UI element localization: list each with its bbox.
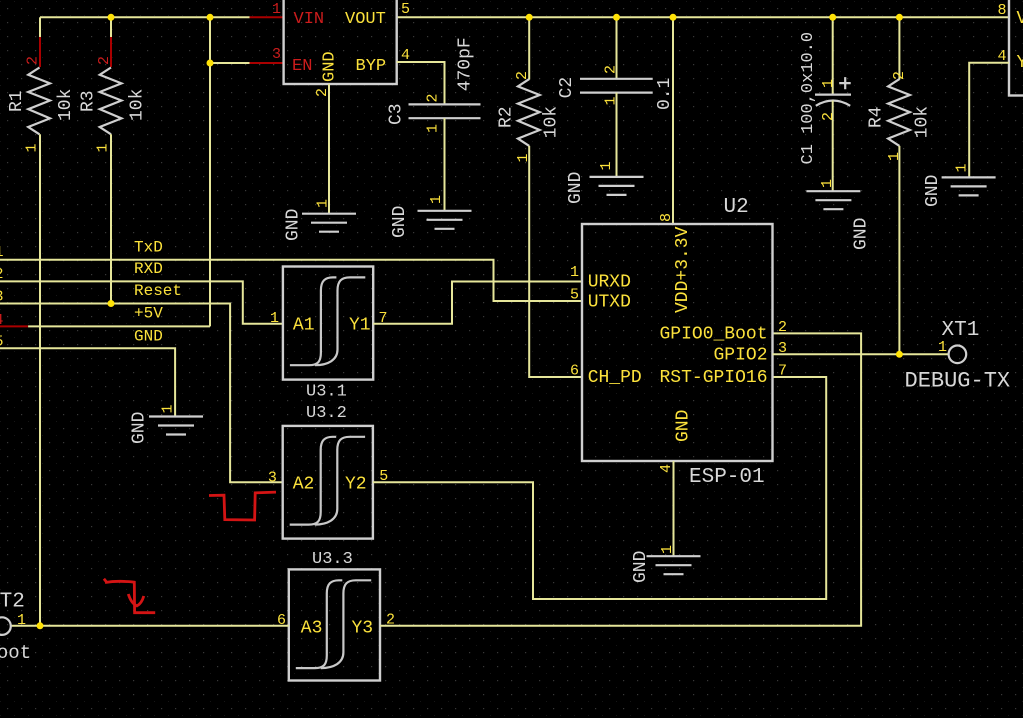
wire +5V riser VIN/EN column xyxy=(209,17,211,326)
svg-text:2: 2 xyxy=(778,319,787,336)
labels of U2 ESP-01 xyxy=(570,196,787,489)
svg-text:6: 6 xyxy=(277,612,286,629)
svg-text:1: 1 xyxy=(425,124,442,133)
labels of regulator U1 xyxy=(272,1,410,97)
svg-text:R3: R3 xyxy=(78,90,98,112)
IC U2 ESP-01 box xyxy=(582,224,773,461)
svg-text:1: 1 xyxy=(0,244,4,261)
svg-text:C2: C2 xyxy=(557,77,577,99)
resistor R3 xyxy=(100,68,122,135)
svg-text:C3: C3 xyxy=(387,103,407,125)
net labels left connector xyxy=(0,238,182,350)
svg-text:1: 1 xyxy=(428,195,445,204)
svg-text:U2: U2 xyxy=(724,196,749,219)
svg-text:2: 2 xyxy=(514,71,531,80)
resistor R4 xyxy=(888,79,910,146)
svg-text:10k: 10k xyxy=(128,89,148,121)
svg-text:U3.2: U3.2 xyxy=(306,404,347,423)
svg-text:7: 7 xyxy=(778,363,787,380)
junction node dots xyxy=(37,14,903,630)
svg-text:2: 2 xyxy=(24,56,41,65)
labels of R3 xyxy=(78,56,147,153)
svg-text:GND: GND xyxy=(134,327,163,345)
svg-text:Y3: Y3 xyxy=(352,619,374,639)
svg-text:GPIO2: GPIO2 xyxy=(714,345,768,365)
wire BYP to C3 xyxy=(397,62,445,104)
svg-text:2: 2 xyxy=(425,93,442,102)
svg-text:XT1: XT1 xyxy=(942,319,980,342)
gate U3.4 box partial at right edge xyxy=(1009,0,1023,96)
wire U2 VDD pin8 stub xyxy=(672,17,674,224)
svg-text:U3.3: U3.3 xyxy=(312,550,353,569)
pin R3 pin2 red xyxy=(110,37,112,67)
svg-text:boot: boot xyxy=(0,642,31,664)
svg-text:R1: R1 xyxy=(7,90,27,112)
svg-text:V: V xyxy=(1017,9,1023,29)
wire Y2 to RST-GPIO16 xyxy=(373,377,826,599)
labels of XT2 xyxy=(0,591,31,665)
svg-text:Y: Y xyxy=(1017,53,1023,73)
capacitor C2 xyxy=(580,79,653,93)
wire C2 bottom to ground xyxy=(616,93,618,177)
svg-text:2: 2 xyxy=(96,56,113,65)
wire Y3 to GPIO0_Boot xyxy=(380,333,861,625)
wire U3.4 pin4 to ground xyxy=(969,63,1009,178)
svg-text:BYP: BYP xyxy=(356,57,387,76)
svg-text:1: 1 xyxy=(938,339,947,356)
ground below C3 xyxy=(418,211,472,229)
svg-text:A3: A3 xyxy=(301,619,323,639)
svg-text:1: 1 xyxy=(659,545,676,554)
svg-text:GPIO0_Boot: GPIO0_Boot xyxy=(660,324,768,344)
gate U3.3 hysteresis curve xyxy=(296,580,371,668)
voltage regulator U1 box xyxy=(284,0,397,84)
labels of R2 xyxy=(497,71,562,163)
svg-text:2: 2 xyxy=(386,612,395,629)
svg-text:R4: R4 xyxy=(867,106,887,128)
wire GPIO2 to XT1 xyxy=(773,353,949,355)
svg-text:1: 1 xyxy=(954,163,971,172)
wire C3 bottom to ground xyxy=(444,118,446,211)
labels of C3 xyxy=(387,37,476,133)
svg-text:RST-GPIO16: RST-GPIO16 xyxy=(660,368,768,388)
wire R4 top stub xyxy=(898,17,900,79)
wire R1 top stub xyxy=(39,17,41,38)
wire U2 GND pin4 down xyxy=(673,461,675,556)
svg-text:10k: 10k xyxy=(913,106,933,138)
wire R3 bottom to Reset row xyxy=(110,134,112,303)
svg-text:2: 2 xyxy=(891,71,908,80)
svg-text:RXD: RXD xyxy=(134,260,163,278)
labels of U3.1 xyxy=(270,310,388,402)
ground below U3.4 pin4 xyxy=(942,177,996,195)
red annotation pulse near U3.2 xyxy=(209,492,276,520)
svg-text:2: 2 xyxy=(0,266,4,283)
svg-text:GND: GND xyxy=(674,410,694,442)
pin R1 pin2 red xyxy=(39,37,41,67)
svg-text:2: 2 xyxy=(820,112,837,121)
svg-text:1: 1 xyxy=(886,152,903,161)
wire R3 top stub xyxy=(110,17,112,38)
ground below regulator xyxy=(302,214,356,232)
svg-text:TxD: TxD xyxy=(134,238,163,256)
labels of ground symbols xyxy=(130,161,971,583)
svg-text:4: 4 xyxy=(658,464,675,473)
labels of R4 xyxy=(867,71,933,161)
ground below U2 xyxy=(647,556,701,574)
wire R2 bottom to CH_PD xyxy=(529,146,582,377)
labels of C1 xyxy=(799,32,837,165)
svg-text:5: 5 xyxy=(0,334,4,351)
wire EN stub yellow xyxy=(210,62,250,64)
wire 3.3V top bus right xyxy=(397,16,1010,18)
svg-text:ESP-01: ESP-01 xyxy=(689,466,765,489)
wire R2 top stub xyxy=(528,17,530,79)
svg-text:URXD: URXD xyxy=(588,273,631,293)
svg-text:C1 100,0x10.0: C1 100,0x10.0 xyxy=(799,32,818,165)
svg-text:+5V: +5V xyxy=(134,305,163,323)
svg-text:1: 1 xyxy=(820,79,837,88)
svg-text:0.1: 0.1 xyxy=(655,78,675,110)
gate U3.2 hysteresis curve xyxy=(290,437,365,525)
wire GND row to ground xyxy=(0,348,175,416)
labels of R1 xyxy=(7,56,76,153)
resistor R2 xyxy=(518,79,540,146)
svg-text:U3.1: U3.1 xyxy=(306,383,347,402)
svg-text:1: 1 xyxy=(515,153,532,162)
pin VIN red stub xyxy=(250,16,284,18)
svg-text:1: 1 xyxy=(315,199,332,208)
svg-text:GND: GND xyxy=(321,51,340,82)
svg-text:6: 6 xyxy=(570,363,579,380)
svg-text:5: 5 xyxy=(570,287,579,304)
svg-text:A1: A1 xyxy=(293,316,315,336)
svg-text:GND: GND xyxy=(852,218,872,250)
wire regulator GND pin down xyxy=(328,84,330,214)
wire Reset row to A2 xyxy=(0,304,283,483)
gate U3.1 box xyxy=(283,267,373,380)
wire VIN stub yellow xyxy=(210,16,250,18)
svg-text:1: 1 xyxy=(272,1,281,18)
connector XT1 circle xyxy=(949,346,967,364)
labels of U3.2 xyxy=(268,404,388,495)
wire R1 bottom rail down to XT2 node xyxy=(39,134,41,626)
svg-text:3: 3 xyxy=(272,46,281,63)
svg-text:2: 2 xyxy=(603,65,620,74)
svg-text:DEBUG-TX: DEBUG-TX xyxy=(905,369,1011,394)
svg-text:1: 1 xyxy=(570,264,579,281)
connector XT2 circle xyxy=(0,617,11,635)
pin EN red stub xyxy=(250,62,284,64)
svg-text:7: 7 xyxy=(379,310,388,327)
svg-text:GND: GND xyxy=(631,551,651,583)
svg-text:3: 3 xyxy=(268,470,277,487)
svg-text:Y2: Y2 xyxy=(345,475,367,495)
capacitor C1 polarized xyxy=(815,95,851,106)
wire TxD row to UTXD xyxy=(0,260,582,301)
svg-text:2: 2 xyxy=(314,88,331,97)
wire C1 top stub xyxy=(832,17,834,94)
ground below C1 xyxy=(806,191,860,209)
wire XT2 boot row to A3 xyxy=(11,625,289,627)
resistor R1 xyxy=(28,68,50,135)
wire RXD row to A1 xyxy=(0,281,283,323)
svg-text:10k: 10k xyxy=(542,106,562,138)
svg-text:Y1: Y1 xyxy=(349,316,371,336)
wire C1 bottom to ground xyxy=(832,101,834,192)
wire +5V row xyxy=(28,325,210,327)
svg-text:GND: GND xyxy=(390,206,410,238)
wire +5V top bus left xyxy=(40,16,210,18)
svg-text:4: 4 xyxy=(998,48,1007,65)
red annotation falling edge near U3.3 xyxy=(104,579,155,613)
svg-text:1: 1 xyxy=(598,161,615,170)
svg-text:1: 1 xyxy=(270,310,279,327)
wire R4 bottom to GPIO2 node xyxy=(898,146,900,354)
svg-text:Reset: Reset xyxy=(134,282,182,300)
svg-text:8: 8 xyxy=(998,2,1007,19)
gate U3.2 box xyxy=(283,426,373,539)
labels of U3.4 partial xyxy=(998,2,1023,73)
wire C2 top stub xyxy=(616,17,618,79)
svg-text:CH_PD: CH_PD xyxy=(588,368,642,388)
svg-text:R2: R2 xyxy=(497,106,517,128)
svg-text:VIN: VIN xyxy=(294,10,325,29)
svg-text:3: 3 xyxy=(778,340,787,357)
labels of C2 xyxy=(557,65,675,110)
svg-text:1: 1 xyxy=(95,143,112,152)
gate U3.3 box xyxy=(289,569,380,680)
svg-text:5: 5 xyxy=(401,1,410,18)
svg-text:1: 1 xyxy=(24,143,41,152)
svg-text:VDD+3.3V: VDD+3.3V xyxy=(673,226,693,313)
svg-text:1: 1 xyxy=(603,96,620,105)
svg-text:1: 1 xyxy=(17,612,26,629)
svg-text:5: 5 xyxy=(379,468,388,485)
gate U3.1 hysteresis curve xyxy=(290,277,365,365)
svg-text:GND: GND xyxy=(284,209,304,241)
svg-text:4: 4 xyxy=(401,47,410,64)
svg-text:XT2: XT2 xyxy=(0,591,25,614)
labels of U3.3 xyxy=(277,550,395,639)
svg-text:8: 8 xyxy=(658,213,675,222)
ground of GND row xyxy=(149,417,203,435)
svg-text:EN: EN xyxy=(292,57,312,76)
svg-text:3: 3 xyxy=(0,289,4,306)
svg-text:4: 4 xyxy=(0,312,4,329)
svg-text:GND: GND xyxy=(566,172,586,204)
svg-text:GND: GND xyxy=(923,175,943,207)
svg-text:GND: GND xyxy=(130,412,150,444)
ground below C2 xyxy=(590,177,644,195)
svg-text:1: 1 xyxy=(819,179,836,188)
wire Y1 to URXD xyxy=(373,282,582,324)
capacitor C3 xyxy=(409,104,481,118)
plus sign of C1 xyxy=(839,77,851,89)
pin connector pin4 red stub xyxy=(0,325,28,327)
svg-text:10k: 10k xyxy=(56,89,76,121)
svg-text:470pF: 470pF xyxy=(456,37,476,91)
svg-text:VOUT: VOUT xyxy=(345,10,386,29)
svg-text:1: 1 xyxy=(160,404,177,413)
svg-text:UTXD: UTXD xyxy=(588,292,631,312)
labels of XT1 xyxy=(905,319,1011,394)
svg-text:A2: A2 xyxy=(293,475,315,495)
